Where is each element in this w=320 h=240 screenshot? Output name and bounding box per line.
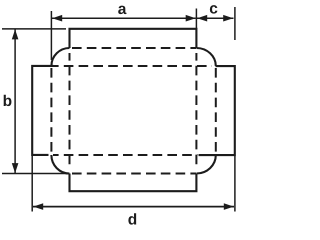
dimension d right arrowhead: [224, 203, 234, 210]
dimension line c: [197, 17, 234, 19]
corner relief arc bottom-left: [51, 155, 69, 174]
dimension c left arrowhead: [197, 15, 207, 22]
extension line for b top: [2, 28, 66, 30]
bottom flap outline: [70, 174, 197, 192]
left flap outline: [32, 66, 53, 155]
svg-text:b: b: [3, 93, 12, 110]
extension line for b bottom: [2, 173, 68, 175]
corner relief arc top-left: [51, 48, 69, 66]
corner relief arc bottom-right: [196, 155, 215, 174]
dimension line b: [14, 30, 16, 174]
outer trim dashed right edge: [215, 68, 217, 153]
fold line dashed top: [53, 65, 212, 67]
fold line dashed bottom: [53, 154, 198, 156]
right flap outline: [199, 66, 235, 155]
outer trim dashed left edge: [50, 68, 52, 153]
dimension a left arrowhead: [52, 15, 62, 22]
outer trim dashed top edge: [72, 47, 196, 49]
corner relief arc top-right: [196, 48, 215, 66]
svg-text:d: d: [128, 212, 137, 229]
fold line dashed right: [195, 53, 197, 168]
dimension d left arrowhead: [33, 203, 43, 210]
dimension b top arrowhead: [12, 29, 19, 39]
dimension c right arrowhead: [223, 15, 233, 22]
extension line for d left: [31, 156, 33, 212]
extension line for d right: [234, 156, 236, 212]
dimension line d: [33, 206, 234, 208]
svg-text:c: c: [209, 1, 218, 18]
extension line for a left: [50, 11, 52, 60]
svg-text:a: a: [118, 1, 127, 18]
top flap outline: [70, 29, 197, 48]
dimension a right arrowhead: [186, 15, 196, 22]
extension line for a and c shared: [195, 9, 197, 30]
outer trim dashed bottom edge: [72, 173, 196, 175]
dimension b bottom arrowhead: [12, 163, 19, 173]
extension line for c right: [234, 7, 236, 40]
dimension line a: [52, 17, 196, 19]
fold line dashed left: [69, 53, 71, 168]
